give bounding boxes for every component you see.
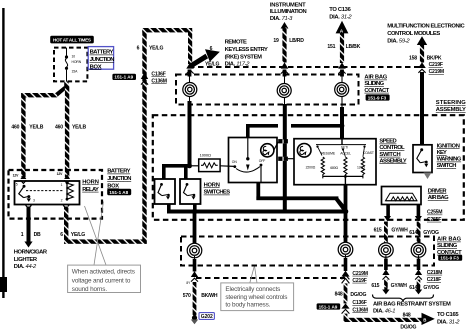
relay mechanical link dashed bbox=[26, 190, 64, 192]
svg-text:DIA. 71-3: DIA. 71-3 bbox=[270, 16, 293, 22]
svg-text:OFF: OFF bbox=[259, 159, 265, 163]
battery junction box (fuse) dashed outline bbox=[54, 48, 87, 82]
svg-text:460: 460 bbox=[11, 125, 19, 131]
arrow up to instrument illumination bbox=[281, 22, 289, 29]
svg-text:848: 848 bbox=[403, 313, 411, 319]
svg-text:151: 151 bbox=[327, 44, 335, 50]
wire 460 YE/LB right vertical bbox=[65, 85, 69, 177]
driver air bag box bbox=[382, 187, 422, 205]
label MULTIFUNCTION ELECTRONIC CONTROL MODULES DIA. 59-2 bbox=[387, 24, 465, 45]
clockspring coil 848 bbox=[338, 242, 353, 271]
bullet connectors lower pair bbox=[278, 157, 288, 161]
svg-text:INSTRUMENT: INSTRUMENT bbox=[270, 3, 306, 9]
coast switch contact bbox=[363, 146, 366, 157]
svg-text:C219F: C219F bbox=[429, 62, 443, 68]
label 19 LB/RD bbox=[273, 38, 304, 44]
label 120 ohm bbox=[357, 165, 365, 169]
label TO C165 DIA. 31-2 bbox=[437, 312, 460, 325]
tiny connector label 8Y bbox=[186, 281, 191, 285]
svg-text:6: 6 bbox=[60, 232, 63, 238]
callout: when activated directs voltage bbox=[68, 202, 141, 294]
wire horn ground down through clockspring bbox=[193, 212, 197, 244]
tag 151-1 A9 bottom bbox=[317, 303, 341, 309]
junction dot speed control feed bbox=[340, 123, 345, 128]
svg-text:RESUME: RESUME bbox=[321, 152, 336, 156]
speed control feed wire from clockspring bbox=[340, 107, 344, 139]
connector arrow on horn ground wire bbox=[191, 271, 198, 281]
svg-text:6: 6 bbox=[210, 46, 213, 52]
label 614 GY/OG lower bbox=[409, 285, 439, 291]
label C136F C136M top bbox=[151, 71, 166, 84]
label 614 GY/OG upper bbox=[409, 230, 439, 236]
wire 614 GY/OG lower striped bbox=[417, 280, 421, 288]
clockspring coil 614 bbox=[411, 243, 426, 270]
svg-text:BK/WH: BK/WH bbox=[201, 293, 218, 299]
ignition key warning switch box bbox=[413, 145, 432, 173]
wire 615 GY/WH lower striped bbox=[384, 280, 388, 288]
relay switch contact bbox=[19, 185, 31, 202]
speed control lamp bbox=[297, 144, 311, 158]
horn relay box bbox=[15, 181, 80, 205]
junction dot horn bus right bbox=[343, 209, 349, 215]
svg-text:C136M: C136M bbox=[352, 307, 367, 313]
connector arrow on 19 LB/RD bbox=[281, 62, 289, 73]
label 460 YE/LB left bbox=[11, 125, 43, 131]
svg-text:AIR BAG: AIR BAG bbox=[437, 237, 462, 243]
svg-text:DIA. 44-2: DIA. 44-2 bbox=[14, 264, 37, 270]
svg-text:C219F: C219F bbox=[352, 278, 366, 284]
junction dot at 1000 ohm tap bbox=[187, 163, 192, 168]
svg-text:YE/LG: YE/LG bbox=[71, 232, 85, 238]
wire resistor to ON contact bbox=[192, 165, 234, 168]
svg-text:615: 615 bbox=[371, 283, 379, 289]
svg-text:YE/LG: YE/LG bbox=[149, 46, 163, 52]
off contact dot bbox=[260, 164, 263, 167]
connector arrow on YE/LG at column boundary bbox=[186, 62, 194, 73]
arrow up to multifunction modules bbox=[417, 36, 427, 45]
connector C255 arrows bbox=[384, 216, 422, 222]
svg-text:TO C136: TO C136 bbox=[329, 7, 351, 13]
label 6 YE/LG at hat bbox=[137, 46, 164, 52]
connector C136 on riser bbox=[141, 73, 148, 85]
svg-text:STEERING: STEERING bbox=[436, 100, 466, 106]
wire 158 BK/PK into steering column bbox=[420, 72, 424, 145]
label 6 YE/LG at RKE branch bbox=[205, 46, 219, 68]
svg-text:10: 10 bbox=[72, 54, 76, 58]
page edge tab bbox=[0, 277, 7, 292]
svg-text:C219M: C219M bbox=[352, 271, 367, 277]
arrow B to C165 bbox=[422, 313, 435, 325]
label HORN SWITCHES bbox=[204, 182, 231, 195]
svg-text:AIR BAG: AIR BAG bbox=[364, 75, 387, 81]
wire 6 YE/LG drop from hat to clockspring bbox=[188, 30, 192, 64]
label 848 DG/OG at arrow bbox=[400, 313, 416, 331]
svg-text:AIR BAG RESTRAINT SYSTEM: AIR BAG RESTRAINT SYSTEM bbox=[373, 301, 451, 307]
label IGNITION KEY WARNING SWITCH bbox=[437, 143, 462, 169]
connector arrow out of relay pin 3 bbox=[26, 205, 32, 208]
svg-text:151-9 F3: 151-9 F3 bbox=[368, 95, 387, 100]
svg-text:YE/LB: YE/LB bbox=[29, 125, 43, 131]
svg-text:JUNCTION: JUNCTION bbox=[90, 57, 115, 63]
svg-text:C218F: C218F bbox=[427, 277, 441, 283]
svg-text:LIGHTER: LIGHTER bbox=[14, 257, 38, 263]
accel switch contact bbox=[342, 148, 346, 156]
svg-text:(RKE) SYSTEM: (RKE) SYSTEM bbox=[225, 55, 262, 61]
svg-text:When activated, directs: When activated, directs bbox=[72, 269, 135, 276]
label COAST bbox=[363, 151, 374, 155]
callout: electrically connects steering wheel bbox=[221, 267, 294, 311]
tag 151-1 A9 top bbox=[112, 74, 136, 80]
page border line bbox=[2, 8, 4, 298]
label 12V right bbox=[57, 172, 64, 176]
clockspring coil LB/BK bbox=[335, 70, 349, 108]
svg-text:SWITCHES: SWITCHES bbox=[204, 190, 231, 196]
svg-text:1: 1 bbox=[61, 183, 63, 187]
wire 460 YE/LB left vertical bbox=[21, 93, 25, 177]
svg-text:COAST: COAST bbox=[363, 151, 374, 155]
svg-text:DRIVER: DRIVER bbox=[428, 188, 448, 194]
svg-text:BK/PK: BK/PK bbox=[427, 56, 442, 62]
svg-text:B: B bbox=[423, 317, 426, 322]
connector arrow on 151 LB/BK bbox=[338, 62, 346, 73]
svg-text:151-1 A9: 151-1 A9 bbox=[114, 75, 133, 80]
svg-text:BOX: BOX bbox=[90, 64, 102, 70]
label 6 YE/LG bbox=[60, 232, 85, 238]
wire horn switch outputs to bus bbox=[167, 204, 197, 213]
svg-text:C136F: C136F bbox=[151, 71, 165, 77]
arrows down to restraint system bbox=[382, 287, 422, 294]
svg-text:GY/OG: GY/OG bbox=[423, 230, 439, 236]
label HORN RELAY bbox=[82, 179, 99, 192]
svg-text:SLIDING: SLIDING bbox=[364, 81, 384, 87]
clockspring coil LB/RD bbox=[277, 70, 291, 108]
svg-text:460: 460 bbox=[55, 125, 63, 131]
clockspring coil YE/LG bbox=[183, 70, 197, 105]
svg-text:C136F: C136F bbox=[352, 300, 366, 306]
svg-text:WARNING: WARNING bbox=[437, 157, 462, 163]
svg-text:BATTERY: BATTERY bbox=[90, 50, 114, 56]
label 12V left bbox=[13, 173, 20, 177]
label HORN/CIGAR LIGHTER DIA. 44-2 bbox=[14, 250, 48, 270]
label G202 (blue link box) bbox=[199, 313, 214, 320]
speed control on/off switch box bbox=[229, 138, 278, 183]
wire 158 BK/PK bbox=[420, 45, 424, 63]
svg-text:sound horns.: sound horns. bbox=[72, 286, 108, 293]
svg-text:GY/WH: GY/WH bbox=[391, 228, 408, 234]
tag 151-9 F3 (lower) bbox=[438, 255, 462, 261]
svg-text:570: 570 bbox=[183, 293, 191, 299]
svg-text:C218M: C218M bbox=[427, 270, 442, 276]
svg-text:Electrically connects: Electrically connects bbox=[225, 286, 280, 293]
relay pin number 3 bbox=[33, 199, 35, 203]
air bag sliding contact box (upper) dashed bbox=[176, 75, 359, 105]
label SET/ bbox=[341, 146, 348, 150]
svg-text:120Ω: 120Ω bbox=[357, 165, 365, 169]
svg-text:GY/OG: GY/OG bbox=[423, 285, 439, 291]
wire branch to horn switches bbox=[162, 164, 190, 179]
svg-text:15A: 15A bbox=[72, 69, 79, 73]
label C136F C136M bottom bbox=[352, 300, 367, 313]
label ACCEL bbox=[340, 152, 351, 156]
svg-text:2200Ω: 2200Ω bbox=[306, 165, 316, 169]
svg-text:RELAY: RELAY bbox=[82, 187, 99, 193]
clockspring coil horn ground bbox=[187, 243, 202, 271]
air bag sliding contact box (lower) dashed bbox=[181, 237, 434, 266]
tag 151-1 A8 bbox=[107, 189, 131, 195]
wire 6 YE/LG hat top bbox=[142, 28, 192, 32]
svg-text:HORN: HORN bbox=[82, 179, 99, 185]
wire between bullet pairs bbox=[283, 143, 287, 156]
svg-text:YE/LB: YE/LB bbox=[72, 125, 86, 131]
resume switch contact bbox=[316, 146, 322, 156]
wire 151 LB/BK bbox=[340, 33, 344, 63]
relay pin number 2 bbox=[61, 199, 63, 203]
svg-text:HORN: HORN bbox=[204, 182, 220, 188]
svg-text:HORN/CIGAR: HORN/CIGAR bbox=[14, 250, 48, 256]
wire 6 YE/LG horizontal run bbox=[64, 239, 147, 243]
connector arrow out of relay pin 2 bbox=[63, 205, 69, 208]
svg-text:KEYLESS ENTRY: KEYLESS ENTRY bbox=[225, 47, 268, 53]
svg-text:SWITCH: SWITCH bbox=[437, 163, 457, 169]
svg-text:REMOTE: REMOTE bbox=[225, 40, 247, 46]
svg-text:151-1 A8: 151-1 A8 bbox=[109, 190, 128, 195]
branch arrow to RKE system bbox=[189, 49, 220, 68]
tag 151-9 F3 (upper) bbox=[366, 94, 390, 100]
resistor 680 ohm bbox=[344, 157, 347, 178]
svg-text:DIA. 31-2: DIA. 31-2 bbox=[437, 319, 460, 325]
junction dot horn bus left bbox=[192, 209, 198, 215]
label C219F C219M bbox=[429, 62, 444, 75]
label STEERING ASSEMBLY bbox=[436, 100, 466, 113]
label C218M C218F bbox=[427, 270, 442, 283]
off contact wire to box bottom bbox=[260, 165, 262, 183]
svg-text:848: 848 bbox=[335, 291, 343, 297]
label 848 DG/OG bbox=[335, 291, 367, 298]
label BATTERY JUNCTION BOX (blue link box) bbox=[88, 47, 114, 71]
label C219M C219F bbox=[352, 271, 367, 284]
svg-text:ACCEL: ACCEL bbox=[340, 152, 351, 156]
svg-text:ASSEMBLY: ASSEMBLY bbox=[436, 107, 466, 113]
wire 614 GY/OG upper segment bbox=[417, 222, 421, 244]
resistor 1000 ohm box bbox=[199, 159, 220, 172]
svg-text:614: 614 bbox=[409, 230, 417, 236]
wire 460 YE/LB horizontal jog bbox=[21, 93, 57, 97]
label BATTERY JUNCTION BOX (at relay) bbox=[107, 169, 131, 190]
wire 19 LB/RD feed down to lamps bbox=[283, 104, 287, 140]
label REMOTE KEYLESS ENTRY (RKE) SYSTEM DIA. 117-2 bbox=[225, 40, 268, 68]
label 460 YE/LB right bbox=[55, 125, 86, 131]
relay coil bbox=[66, 181, 74, 200]
label AIR BAG RESTRAINT SYSTEM DIA. 46-1 bbox=[373, 301, 451, 314]
connector C219 on 848 wire bbox=[341, 271, 349, 284]
svg-text:3: 3 bbox=[33, 199, 35, 203]
wire feed to on/off switch (hop over lamp wire) bbox=[246, 124, 342, 138]
ground G202 bbox=[191, 315, 198, 324]
svg-text:19: 19 bbox=[273, 38, 279, 44]
svg-text:ILLUMINATION: ILLUMINATION bbox=[270, 9, 307, 15]
svg-text:1: 1 bbox=[21, 232, 24, 238]
wire 615 GY/WH upper segment bbox=[384, 222, 388, 244]
svg-text:DIA. 31-2: DIA. 31-2 bbox=[329, 14, 352, 20]
label 1000 ohm bbox=[200, 152, 211, 157]
svg-text:151-9 F3: 151-9 F3 bbox=[440, 256, 459, 261]
label RESUME bbox=[321, 152, 336, 156]
svg-text:AIR BAG: AIR BAG bbox=[428, 195, 449, 201]
svg-text:C255F: C255F bbox=[427, 217, 441, 223]
connector arrow into relay pin 5 bbox=[21, 174, 27, 183]
svg-text:ASSEMBLY: ASSEMBLY bbox=[379, 158, 406, 164]
svg-text:2: 2 bbox=[61, 199, 63, 203]
svg-text:JUNCTION: JUNCTION bbox=[107, 176, 131, 182]
resistor 120 ohm bbox=[361, 157, 364, 178]
wire fuse output junction bbox=[55, 81, 69, 96]
lamp wire to bullet lower bbox=[288, 158, 294, 160]
driver air bag output wires bbox=[386, 205, 420, 217]
arrow A to C136 bbox=[336, 21, 349, 35]
wire 848 DG/OG elbow to arrow bbox=[344, 314, 422, 322]
horn switch left box bbox=[155, 179, 176, 204]
svg-text:HORN: HORN bbox=[72, 60, 82, 64]
svg-text:C255M: C255M bbox=[427, 210, 442, 216]
svg-text:CONTROL: CONTROL bbox=[379, 145, 405, 151]
label 615 GY/WH lower bbox=[371, 283, 407, 289]
svg-text:SLIDING: SLIDING bbox=[437, 243, 458, 249]
label TO C136 DIA. 31-2 bbox=[329, 7, 352, 20]
wire speed control output to junction bbox=[344, 185, 348, 211]
label 151 LB/BK bbox=[327, 44, 360, 50]
label 570 BK/WH bbox=[183, 293, 218, 299]
steering wheel assembly dashed box bbox=[153, 115, 464, 220]
wire 848 down through clockspring bbox=[344, 212, 348, 243]
svg-text:680Ω: 680Ω bbox=[330, 166, 338, 170]
svg-text:GY/WH: GY/WH bbox=[391, 283, 408, 289]
speed control output drop bbox=[344, 176, 346, 184]
horn switch right box bbox=[180, 179, 201, 204]
svg-text:BOX: BOX bbox=[107, 183, 119, 189]
svg-text:DIA. 59-2: DIA. 59-2 bbox=[387, 38, 410, 44]
svg-text:C136M: C136M bbox=[151, 78, 166, 84]
lamp wire to bullet bbox=[274, 142, 278, 150]
label C255M C255F bbox=[427, 210, 442, 223]
svg-text:TO C165: TO C165 bbox=[437, 312, 459, 318]
svg-text:615: 615 bbox=[374, 228, 382, 234]
label AIR BAG SLIDING CONTACT (upper) bbox=[364, 75, 389, 94]
battery junction box (relay) dashed outline bbox=[9, 170, 103, 219]
wire 848 DG/OG striped segment bbox=[344, 283, 348, 303]
svg-text:LB/RD: LB/RD bbox=[289, 38, 304, 44]
connector C218 arrows on 615 614 bbox=[382, 269, 422, 279]
resistor 2200 ohm bbox=[321, 157, 324, 178]
relay pin number 5 bbox=[16, 183, 18, 187]
resistor bottom bus bbox=[323, 175, 363, 178]
wire horn feed down in wheel bbox=[188, 101, 192, 167]
svg-text:SWITCH: SWITCH bbox=[379, 152, 400, 158]
switch arc bbox=[236, 167, 260, 172]
svg-text:1000Ω: 1000Ω bbox=[200, 152, 211, 157]
svg-text:151-1 A9: 151-1 A9 bbox=[319, 304, 338, 309]
svg-text:CONTACT: CONTACT bbox=[364, 88, 389, 94]
label 2200 ohm bbox=[306, 165, 316, 169]
on contact dot bbox=[233, 165, 236, 168]
label 615 GY/WH upper bbox=[374, 228, 409, 234]
label SPEED CONTROL SWITCH ASSEMBLY bbox=[379, 139, 406, 165]
column boundary dashed line bbox=[189, 66, 424, 68]
svg-text:DIA. 46-1: DIA. 46-1 bbox=[373, 309, 395, 315]
on/off illumination lamp bbox=[261, 144, 274, 157]
wire 19 LB/RD bbox=[282, 28, 286, 63]
svg-text:12V: 12V bbox=[13, 173, 20, 177]
svg-text:5: 5 bbox=[16, 183, 18, 187]
label INSTRUMENT ILLUMINATION DIA. 71-3 bbox=[270, 3, 307, 22]
svg-text:MULTIFUNCTION ELECTRONIC: MULTIFUNCTION ELECTRONIC bbox=[387, 24, 465, 30]
wire 6 YE/LG riser to C136 bbox=[142, 30, 146, 244]
label ON bbox=[232, 160, 238, 164]
svg-text:KEY: KEY bbox=[437, 150, 447, 156]
connector C219 on 158 wire bbox=[418, 62, 426, 73]
svg-text:G202: G202 bbox=[201, 314, 213, 320]
clockspring coil 615 bbox=[379, 243, 394, 270]
svg-text:ON: ON bbox=[232, 160, 238, 164]
svg-text:to body harness.: to body harness. bbox=[225, 302, 270, 309]
svg-text:SPEED: SPEED bbox=[379, 139, 396, 145]
label 680 ohm bbox=[330, 166, 338, 170]
column boundary dashed line lower bbox=[196, 277, 345, 279]
svg-text:DB: DB bbox=[34, 232, 41, 238]
speed control switch assembly box bbox=[294, 139, 376, 185]
svg-text:BATTERY: BATTERY bbox=[107, 169, 130, 175]
label HOT AT ALL TIMES bbox=[50, 36, 94, 44]
wire 570 BK/WH bbox=[193, 282, 197, 316]
wire on/off output elbow bbox=[256, 183, 347, 212]
svg-text:C219M: C219M bbox=[429, 69, 444, 75]
horn ground bus bbox=[167, 210, 347, 214]
svg-text:DG/OG: DG/OG bbox=[350, 292, 366, 298]
connector arrow into relay pin 1 bbox=[64, 174, 70, 183]
connector C136 on 848 wire bbox=[341, 303, 349, 313]
svg-text:IGNITION: IGNITION bbox=[437, 143, 460, 149]
ignition switch ground arrow bbox=[424, 173, 432, 180]
brace air bag restraint bbox=[373, 295, 434, 301]
svg-text:LB/BK: LB/BK bbox=[346, 44, 361, 50]
svg-text:SET/: SET/ bbox=[341, 146, 348, 150]
label DRIVER AIR BAG bbox=[428, 188, 449, 201]
label OFF bbox=[259, 159, 265, 163]
wire lamp return down to ground bus bbox=[283, 161, 287, 212]
wire 1 DB down to horns bbox=[24, 207, 32, 248]
svg-text:158: 158 bbox=[409, 56, 417, 62]
svg-text:CONTROL MODULES: CONTROL MODULES bbox=[387, 31, 440, 37]
svg-text:DG/OG: DG/OG bbox=[400, 324, 416, 330]
on/off switch feed and pivot bbox=[246, 138, 250, 171]
label 1 DB bbox=[21, 232, 41, 238]
wire 6 YE/LG relay to steering column: down segment bbox=[64, 207, 68, 244]
speed control feed into box bbox=[316, 139, 366, 145]
bullet connectors upper pair bbox=[278, 139, 288, 143]
fuse F10 HORN 15A bbox=[65, 48, 82, 82]
svg-text:12V: 12V bbox=[57, 172, 64, 176]
svg-text:HOT AT ALL TIMES: HOT AT ALL TIMES bbox=[53, 38, 91, 43]
svg-text:steering wheel controls: steering wheel controls bbox=[225, 294, 287, 301]
svg-text:6: 6 bbox=[137, 46, 140, 52]
relay pin number 1 bbox=[61, 183, 63, 187]
label 158 BK/PK bbox=[409, 56, 442, 62]
svg-text:voltage and current to: voltage and current to bbox=[72, 277, 131, 284]
label AIR BAG SLIDING CONTACT (lower) bbox=[437, 237, 462, 256]
